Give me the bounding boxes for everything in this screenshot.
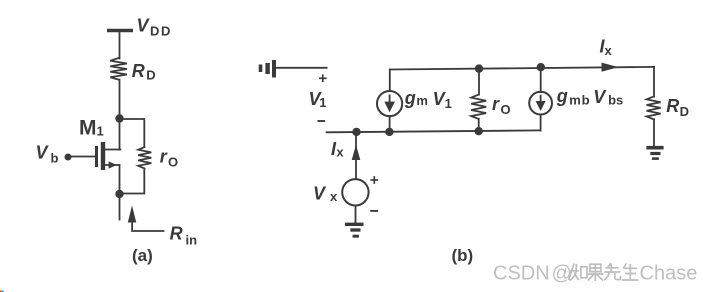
svg-text:x: x [330,189,338,204]
node drain (dot) [115,114,123,122]
transistor M1 drain lead [105,149,120,151]
ground (below RD) [646,148,663,159]
svg-text:DD: DD [150,24,172,39]
svg-text:O: O [501,102,511,117]
node gmV1-bottom (dot) [385,128,393,136]
svg-text:1: 1 [445,96,452,111]
svg-text:g: g [404,88,416,108]
svg-text:Chase: Chase [640,263,698,285]
svg-text:mb: mb [569,93,590,108]
plus sign V1 [320,75,326,81]
wire top-right corner down to RD [653,67,655,97]
svg-text:1: 1 [97,124,104,139]
minus sign V1 [318,120,324,122]
svg-text:g: g [556,86,568,106]
svg-text:m: m [416,93,428,108]
plus sign Vx [371,177,377,183]
svg-text:r: r [492,94,500,114]
arrow Ix (bottom, points up) [352,145,361,161]
corner artifact pixels [0,291,3,292]
voltage source Vx [342,179,368,205]
resistor RD (circuit a) [110,58,127,80]
watermark CJK glyphs (hand drawn) [569,263,639,281]
svg-text:O: O [168,155,178,170]
wire source to Rin node [119,165,121,220]
node rO-top (dot) [475,64,483,72]
node rO-bottom (dot) [475,127,483,135]
svg-text:r: r [160,146,168,166]
svg-text:x: x [605,43,613,58]
wire rO branch top [121,119,144,147]
svg-text:b: b [51,151,59,166]
svg-text:D: D [680,104,689,119]
wire gmbVbs branch bottom [540,115,542,131]
svg-text:in: in [186,232,198,247]
transistor M1 source lead [105,164,120,166]
svg-text:V: V [593,87,607,107]
svg-text:V: V [137,16,151,36]
wire Rin lead [132,222,163,232]
arrow Rin (points up) [128,206,137,223]
svg-text:D: D [146,67,155,82]
wire RD to ground [653,119,655,146]
wire gmbVbs branch top [540,67,542,92]
wire VDD to RD [119,31,121,59]
supply rail VDD bar [107,29,133,32]
wire gate to V1 plus [276,67,327,69]
node source (dot) [115,190,123,198]
wire rO branch top (b) [478,69,480,95]
svg-text:1: 1 [319,95,326,110]
wire Vx branch [355,132,357,179]
svg-text:R: R [132,61,145,81]
svg-text:V: V [36,143,50,163]
svg-text:R: R [666,96,679,116]
current source gm V1 [377,91,402,116]
svg-text:CSDN: CSDN [493,263,550,285]
node Vx-top (dot) [352,128,360,136]
svg-text:bs: bs [608,93,623,108]
resistor rO (circuit b) [471,95,486,120]
wire gmV1 branch top [389,70,391,92]
resistor RD (circuit b) [647,97,661,120]
wire rO branch bottom (b) [478,119,480,131]
svg-text:R: R [170,224,183,244]
wire gate [70,156,95,158]
transistor M1 gate bar [95,146,98,167]
svg-text:x: x [336,144,344,159]
wire Vx to ground [355,206,357,224]
arrow Ix (top, points right) [602,63,619,72]
wire rO branch bottom [121,169,144,194]
wire RD to drain node [119,80,121,150]
node gmbVbs-top (dot) [537,63,545,71]
ground (sideways, gate of small-signal model) [261,60,275,78]
wire bottom rail [327,130,541,132]
svg-text:M: M [79,117,97,140]
wire top rail [390,67,654,70]
svg-text:(a): (a) [132,246,153,265]
wire gmV1 branch bottom [389,116,391,132]
transistor M1 source arrow [109,161,117,168]
minus sign Vx [371,210,377,212]
terminal Vb (dot) [65,154,72,161]
transistor M1 channel bar [101,142,105,170]
current source gmb Vbs [529,92,552,115]
resistor rO (circuit a) [138,147,151,169]
svg-text:V: V [313,183,327,203]
svg-text:(b): (b) [452,246,474,265]
ground (below Vx) [345,224,364,236]
svg-text:@: @ [552,263,572,285]
